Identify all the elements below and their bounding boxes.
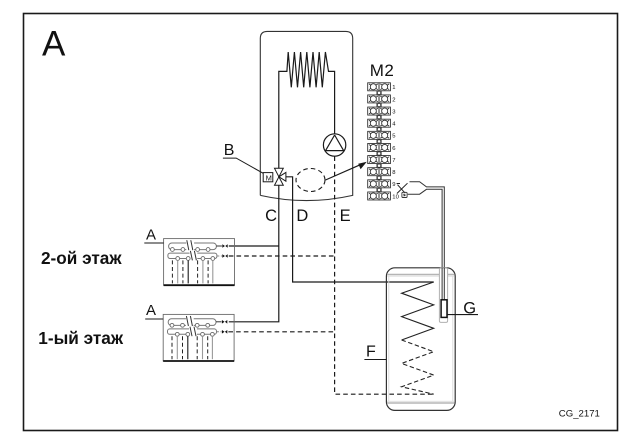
M2 bridge 1-2 <box>377 91 381 95</box>
svg-text:B: B <box>224 142 235 159</box>
flow shutoff valve 1st floor <box>216 320 227 324</box>
return manifold 1st floor ports <box>175 332 214 336</box>
svg-text:E: E <box>340 207 351 225</box>
M2 bridge 8-9 <box>377 176 381 180</box>
svg-text:9: 9 <box>392 182 395 188</box>
return shutoff valve 1st floor <box>217 330 228 334</box>
manifold cabinet 2nd floor box <box>164 239 235 286</box>
floor loops 2nd floor solid pipes <box>178 260 213 283</box>
M2 bridge 6-7 <box>377 151 381 155</box>
M2 bridge 7-8 <box>377 164 381 168</box>
return manifold 2nd floor ports <box>176 257 215 261</box>
dashed ellipse (optional pump location) <box>296 169 325 192</box>
svg-text:7: 7 <box>392 158 395 164</box>
flow manifold 2nd floor ports <box>171 248 211 252</box>
wire C (boiler flow to floors) <box>229 185 279 321</box>
svg-text:2: 2 <box>392 97 395 103</box>
sensor bulb G <box>441 300 447 318</box>
boiler outline <box>260 31 352 200</box>
svg-text:D: D <box>296 207 308 225</box>
flow manifold 2nd floor <box>169 240 217 251</box>
M2 bridge 2-3 <box>377 103 381 107</box>
M2 bridge 4-5 <box>377 127 381 131</box>
wire 2nd floor flow <box>229 245 279 247</box>
three-way valve B with motor <box>263 168 286 185</box>
M2 terminal row 10 <box>368 192 391 200</box>
manifold cabinet 1st floor box <box>163 314 234 361</box>
svg-text:10: 10 <box>392 194 399 200</box>
wire from terminal 9 <box>410 182 445 300</box>
svg-text:C: C <box>265 207 277 225</box>
floor loops 1st floor solid pipes <box>177 336 212 359</box>
pump <box>323 134 345 156</box>
return manifold 2nd floor <box>168 251 217 261</box>
flow shutoff valve 2nd floor <box>216 244 227 248</box>
svg-text:CG_2171: CG_2171 <box>559 409 600 420</box>
wire D (boiler flow to tank coil) <box>286 177 434 282</box>
M2 terminal row 4 <box>368 119 391 127</box>
sensor connector box <box>402 192 407 197</box>
M2 terminal row 1 <box>368 83 391 91</box>
return shutoff valve 2nd floor <box>217 254 228 258</box>
tank coil dashed part <box>402 340 434 394</box>
cable marker (crossed slashes) <box>397 183 408 193</box>
wire 1st floor return dashed <box>228 331 334 333</box>
tank coil solid part <box>402 282 434 340</box>
M2 terminal row 8 <box>368 168 391 176</box>
M2 terminal row 3 <box>368 107 391 115</box>
wire E dashed (common return) <box>335 156 434 394</box>
svg-text:A: A <box>146 302 156 319</box>
M2 bridge 5-6 <box>377 139 381 143</box>
svg-text:1: 1 <box>392 85 395 91</box>
heat exchanger coil <box>279 52 335 168</box>
M2 terminal row 6 <box>368 143 391 151</box>
svg-text:2-ой этаж: 2-ой этаж <box>41 248 122 268</box>
svg-text:F: F <box>366 343 376 360</box>
return manifold 1st floor <box>168 327 217 337</box>
arrow from ellipse to terminal block M2 <box>326 165 360 180</box>
svg-text:1-ый этаж: 1-ый этаж <box>38 328 124 348</box>
svg-text:A: A <box>146 227 156 244</box>
M2 bridge 9-10 <box>377 188 381 192</box>
M2 terminal row 7 <box>368 156 391 164</box>
storage tank <box>386 268 455 411</box>
wire 2nd floor return dashed <box>229 255 335 257</box>
M2 terminal row 9 <box>368 180 391 188</box>
sensor wires in pocket <box>441 268 443 300</box>
floor loops 2nd floor dashed pipes <box>172 260 208 283</box>
flow manifold 1st floor ports <box>170 323 210 327</box>
flow manifold 1st floor <box>168 316 216 327</box>
floor loops 1st floor dashed pipes <box>172 336 208 359</box>
M2 terminal row 2 <box>368 95 391 103</box>
M2 terminal row 5 <box>368 131 391 139</box>
wire from terminal 10 <box>408 189 442 300</box>
svg-text:M2: M2 <box>370 61 394 80</box>
sensor pocket <box>439 268 447 322</box>
svg-text:A: A <box>42 24 66 63</box>
M2 bridge 3-4 <box>377 115 381 119</box>
svg-text:M: M <box>266 173 272 182</box>
